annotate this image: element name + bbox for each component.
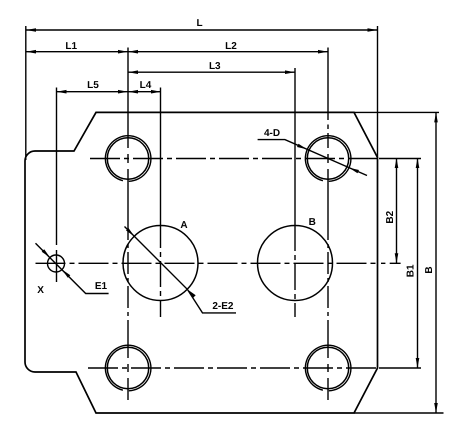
arrow 2-E2 upper	[126, 228, 134, 236]
dimension B2	[396, 158, 398, 263]
arrow 4-D lower	[349, 168, 359, 174]
svg-text:L: L	[197, 18, 203, 29]
hole bottom-left inner circle	[107, 347, 148, 388]
arrow L4 right	[151, 90, 161, 94]
centerline top holes row y=158	[90, 158, 378, 160]
extension line right of bottom centerline	[379, 367, 421, 369]
centerline bottom holes row y=368	[88, 367, 378, 369]
arrow L right	[368, 28, 378, 32]
arrow L left	[26, 28, 36, 32]
arrow L4 left	[128, 90, 138, 94]
extension line top edge y=112.4 right	[354, 111, 439, 113]
dimension L1	[26, 51, 128, 53]
extension+centerline x=295 hole B column	[294, 68, 296, 225]
svg-text:B: B	[424, 266, 435, 273]
extension+centerline x=56.5 hole X column	[56, 88, 58, 283]
arrow B2 top	[395, 158, 399, 168]
svg-text:L2: L2	[225, 41, 237, 52]
hole bottom-left thread arc	[105, 345, 151, 391]
svg-text:A: A	[180, 220, 187, 231]
hole X circle	[48, 255, 65, 272]
arrow B bottom	[434, 403, 438, 413]
arrow E1 lower	[62, 270, 70, 278]
arrow L2 right	[318, 50, 328, 54]
hole top-right thread arc	[305, 136, 351, 182]
hole top-left inner circle	[107, 138, 148, 179]
arrow L2 left	[128, 50, 138, 54]
arrow 4-D upper	[297, 144, 307, 150]
svg-text:X: X	[37, 285, 44, 296]
extension+centerline x=128 top-left hole column	[127, 48, 129, 219]
centerline x=328 between holes	[327, 218, 329, 340]
arrow L1 left	[26, 50, 36, 54]
dimension L2	[128, 51, 328, 53]
arrow B2 bottom	[395, 253, 399, 263]
arrow B1 top	[416, 158, 420, 168]
arrow L5 left	[57, 90, 67, 94]
leader E1	[36, 243, 109, 293]
svg-text:L1: L1	[65, 41, 77, 52]
hole B circle	[258, 226, 333, 301]
arrow 2-E2 lower	[187, 289, 195, 297]
extension+centerline x=328 top-right hole column	[327, 48, 329, 219]
arrow L3 right	[285, 70, 295, 74]
svg-text:4-D: 4-D	[264, 128, 280, 139]
centerline middle holes row y=263	[36, 262, 378, 264]
dimension B1	[417, 158, 419, 368]
svg-text:L5: L5	[87, 80, 99, 91]
extension line x=377.5 right edge	[377, 26, 379, 158]
arrow B top	[434, 112, 438, 122]
extension line left edge x=26	[25, 26, 27, 160]
dimension L5	[57, 91, 129, 93]
hole A circle	[123, 226, 198, 301]
svg-text:B2: B2	[385, 210, 396, 223]
dimension L4	[128, 91, 161, 93]
extension+centerline x=160.5 hole A column	[160, 88, 162, 223]
svg-text:L3: L3	[209, 61, 221, 72]
svg-text:B1: B1	[406, 264, 417, 277]
extension line right of middle centerline	[381, 262, 401, 264]
svg-text:E1: E1	[95, 281, 108, 292]
dimension B	[435, 112, 437, 413]
extension line right of top holes centerline	[379, 158, 421, 160]
svg-text:L4: L4	[140, 80, 152, 91]
arrow L5 right	[118, 90, 128, 94]
extension line bottom edge y=413 right	[354, 412, 444, 414]
hole top-right inner circle	[307, 138, 348, 179]
dimension L3	[128, 71, 295, 73]
hole top-left thread arc	[105, 136, 151, 182]
plate outline	[25, 112, 378, 413]
svg-text:B: B	[309, 217, 316, 228]
svg-text:2-E2: 2-E2	[212, 301, 234, 312]
hole bottom-right inner circle	[307, 347, 348, 388]
leader 2-E2	[125, 227, 237, 313]
arrow L1 right	[118, 50, 128, 54]
arrow E1 upper	[42, 249, 50, 257]
crosshair x=128 bottom hole	[127, 340, 129, 400]
hole bottom-right thread arc	[305, 345, 351, 391]
arrow B1 bottom	[416, 358, 420, 368]
centerline x=128 between holes	[127, 218, 129, 340]
leader 4-D	[258, 140, 367, 176]
dimension L	[26, 29, 378, 31]
arrow L3 left	[128, 70, 138, 74]
crosshair x=328 bottom hole	[327, 340, 329, 400]
